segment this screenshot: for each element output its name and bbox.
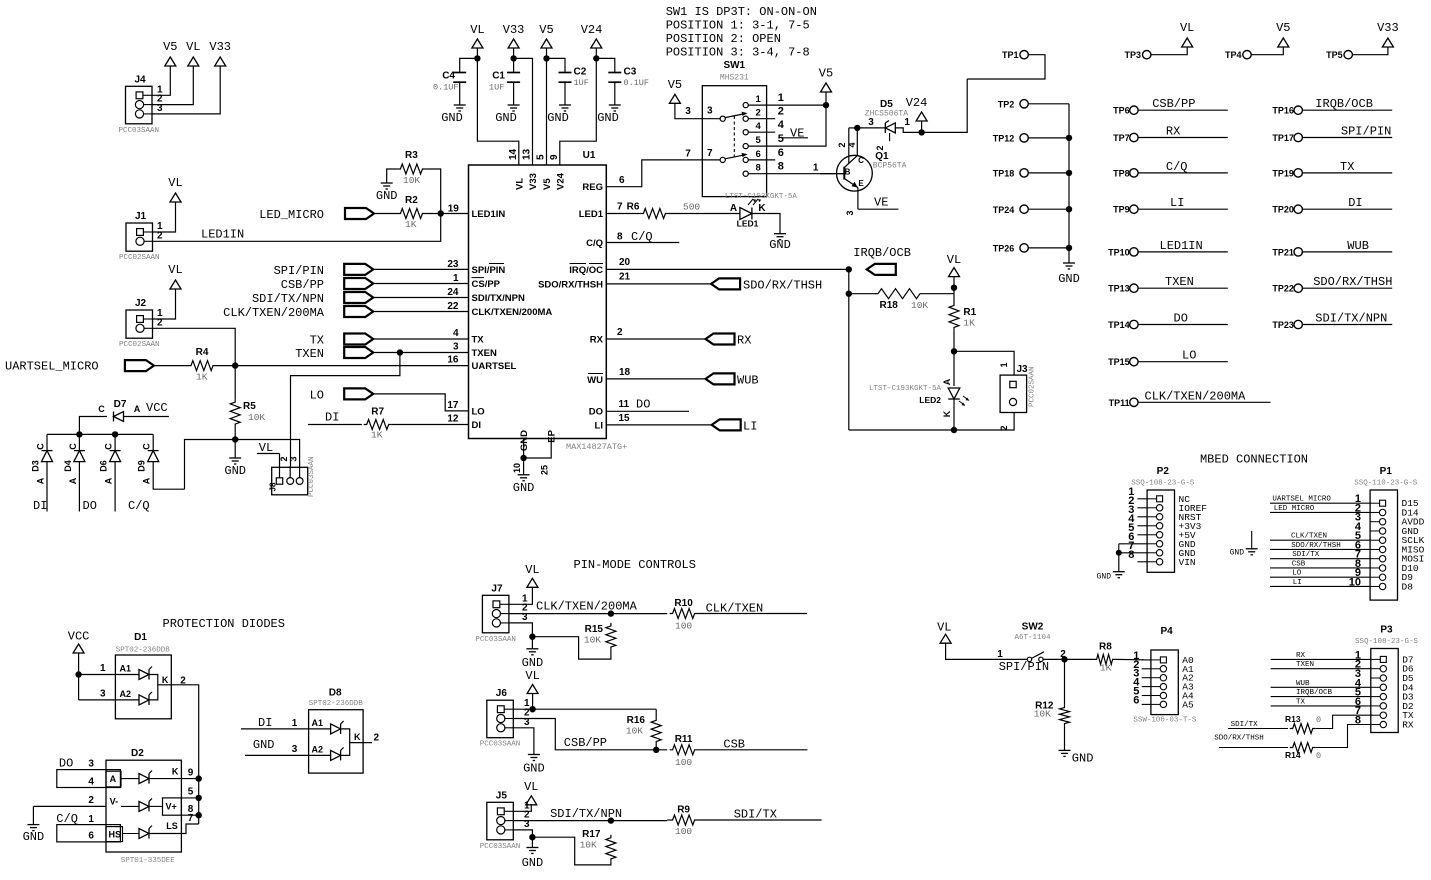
diode D4 — [78, 434, 80, 450]
wire SW1 pin8 to Q1 base — [748, 173, 843, 175]
svg-text:CSB/PP: CSB/PP — [564, 736, 607, 750]
svg-text:P1: P1 — [1380, 466, 1393, 477]
net tag SPI/PIN — [344, 264, 373, 275]
wire P4 pin1 stub — [1142, 659, 1151, 661]
svg-text:TXEN: TXEN — [295, 347, 324, 361]
svg-text:R13: R13 — [1285, 714, 1301, 724]
wire P4 pin6 stub — [1142, 703, 1151, 705]
wire R2 to pin 19 of U1 — [425, 213, 468, 215]
svg-text:J5: J5 — [496, 790, 508, 801]
svg-text:VL: VL — [168, 176, 182, 190]
svg-text:LO: LO — [472, 406, 485, 417]
junction V24 node — [918, 129, 924, 135]
diode D1a — [139, 670, 149, 680]
connector J4 — [126, 86, 153, 124]
wire D1 K junction — [149, 675, 158, 700]
ground at R5 — [234, 440, 236, 459]
wire TP5 to V33 — [1353, 47, 1388, 55]
svg-text:VL: VL — [470, 23, 484, 37]
svg-text:PROTECTION DIODES: PROTECTION DIODES — [163, 617, 285, 631]
svg-text:0.1UF: 0.1UF — [624, 78, 650, 88]
svg-text:V5: V5 — [163, 40, 177, 54]
wire J5 pin1 to VL — [513, 805, 531, 812]
svg-text:C/Q: C/Q — [586, 238, 603, 249]
svg-text:RX: RX — [737, 333, 751, 347]
wire TP24 to gnd bus — [1028, 208, 1069, 210]
svg-text:6: 6 — [88, 831, 94, 842]
svg-text:D6: D6 — [99, 460, 109, 472]
wire TX to U1 pin 4 — [373, 338, 468, 340]
svg-text:D8: D8 — [329, 688, 342, 699]
svg-text:VE: VE — [874, 196, 888, 210]
junction U1 ground node — [520, 455, 526, 461]
svg-text:POSITION 2: OPEN: POSITION 2: OPEN — [666, 32, 781, 46]
wire TP1 to V24 riser — [967, 55, 1045, 79]
wire P3 TXEN — [1271, 668, 1371, 670]
svg-text:A1: A1 — [312, 718, 324, 728]
wire CSB/PP to U1 pin 1 — [373, 283, 468, 285]
svg-text:V5: V5 — [542, 178, 553, 190]
svg-text:PIN-MODE CONTROLS: PIN-MODE CONTROLS — [574, 558, 696, 572]
power V5 arrow above node — [821, 83, 832, 92]
svg-text:UARTSEL_MICRO: UARTSEL_MICRO — [5, 360, 99, 374]
svg-text:LO: LO — [310, 388, 324, 402]
svg-text:C/Q: C/Q — [56, 812, 78, 826]
svg-text:LED1: LED1 — [579, 209, 604, 220]
diode D3 — [46, 434, 48, 450]
svg-text:GND: GND — [547, 111, 569, 125]
wire LED2 node to J3 pin2 — [954, 413, 1014, 431]
svg-text:SDO/RX/THSH: SDO/RX/THSH — [743, 278, 822, 292]
svg-text:VCC: VCC — [146, 401, 168, 415]
svg-text:V24: V24 — [581, 23, 603, 37]
power V33 arrow rail — [508, 39, 519, 48]
wire J1 pin1 to VL — [153, 202, 176, 232]
svg-text:CLK/TXEN: CLK/TXEN — [1291, 533, 1327, 541]
svg-text:TP6: TP6 — [1113, 106, 1130, 116]
pin box V+ of D2 — [163, 798, 182, 815]
svg-text:GND: GND — [376, 189, 398, 203]
svg-text:6: 6 — [778, 147, 784, 159]
svg-text:2: 2 — [756, 108, 761, 119]
wire R1 to LED2 node — [953, 330, 955, 351]
svg-text:0: 0 — [1316, 715, 1321, 725]
junction R18 left node — [846, 291, 852, 297]
svg-text:13: 13 — [522, 148, 533, 160]
svg-text:A5: A5 — [1182, 699, 1194, 710]
svg-text:R14: R14 — [1285, 750, 1301, 760]
wire U1 EP pin to ground node — [524, 439, 552, 459]
wire TP3 to VL — [1151, 47, 1187, 55]
wire V5 to SW1 pin3 — [675, 103, 703, 118]
svg-text:GND: GND — [513, 481, 535, 495]
svg-text:LO: LO — [1182, 349, 1196, 363]
svg-text:GND: GND — [495, 111, 517, 125]
svg-text:GND: GND — [23, 830, 45, 844]
svg-text:2: 2 — [157, 317, 163, 328]
svg-text:DO: DO — [1174, 312, 1188, 326]
svg-text:SSQ-108-23-G-S: SSQ-108-23-G-S — [1355, 638, 1419, 646]
svg-text:V24: V24 — [906, 96, 928, 110]
ground at R3 — [381, 182, 393, 184]
svg-text:VL: VL — [1180, 21, 1194, 35]
wire TP11 stub CLK/TXEN/200MA — [1138, 401, 1270, 403]
svg-text:7: 7 — [707, 148, 713, 159]
wire P4 pin4 stub — [1142, 686, 1151, 688]
svg-text:VL: VL — [168, 263, 182, 277]
capacitor C3 — [596, 58, 615, 65]
svg-text:C: C — [858, 156, 864, 165]
svg-text:SDI/TX/NPN: SDI/TX/NPN — [1315, 312, 1387, 326]
wire LED1 cathode to ground — [752, 214, 780, 234]
svg-text:RX: RX — [1166, 125, 1180, 139]
svg-text:CSB/PP: CSB/PP — [281, 278, 324, 292]
svg-text:2: 2 — [88, 795, 94, 806]
svg-text:2: 2 — [279, 456, 289, 461]
wire J2 pin2 down to UARTSEL node — [153, 328, 236, 365]
svg-text:GND: GND — [1058, 272, 1080, 286]
svg-text:WUB: WUB — [1347, 239, 1369, 253]
svg-text:C2: C2 — [574, 67, 587, 78]
wire C/Q stub from U1 pin 8 — [606, 242, 679, 244]
svg-text:LED1IN: LED1IN — [1160, 239, 1203, 253]
wire D7 anode to VCC — [124, 416, 169, 418]
resistor R4 — [188, 361, 216, 371]
junction VL R1 node — [951, 285, 957, 291]
power VL arrow at SW2 — [940, 634, 951, 643]
wire IRQB vertical to LED2 node — [849, 429, 954, 431]
svg-text:10K: 10K — [1034, 709, 1051, 720]
svg-text:4: 4 — [88, 777, 94, 788]
svg-text:P2: P2 — [1157, 466, 1170, 477]
svg-text:V5: V5 — [539, 23, 553, 37]
svg-text:7: 7 — [685, 149, 691, 160]
svg-text:C/Q: C/Q — [128, 499, 150, 513]
svg-text:C: C — [104, 443, 114, 450]
connector J6 — [487, 700, 514, 738]
svg-text:3: 3 — [289, 456, 299, 461]
svg-text:2: 2 — [837, 142, 847, 147]
wire SW2 to R8 node — [1043, 658, 1094, 660]
wire R6 to LED1 anode — [668, 213, 740, 215]
svg-text:SDI/TX/NPN: SDI/TX/NPN — [252, 292, 324, 306]
resistor R7 — [364, 420, 392, 430]
resistor R17 — [532, 837, 611, 865]
wire P3 RX — [1271, 658, 1371, 660]
wire SPI/PIN to U1 pin 23 — [373, 268, 468, 270]
svg-text:TP3: TP3 — [1124, 50, 1141, 60]
svg-text:POSITION 1: 3-1, 7-5: POSITION 1: 3-1, 7-5 — [666, 19, 810, 33]
svg-text:TP24: TP24 — [993, 205, 1015, 215]
svg-text:22: 22 — [447, 301, 459, 312]
wire P3 WUB — [1271, 686, 1371, 688]
svg-text:10K: 10K — [580, 840, 597, 851]
wire V33 rail to pin 13 — [514, 58, 533, 165]
junction R17 top — [608, 817, 614, 823]
wire diode bus to R5 node — [185, 440, 236, 490]
svg-text:SW1 IS DP3T: ON-ON-ON: SW1 IS DP3T: ON-ON-ON — [666, 5, 817, 19]
junction VCC node at D1 — [75, 671, 81, 677]
wire D1 pin2 to D2 rail — [171, 685, 198, 824]
wire P4 pin2 stub — [1142, 668, 1151, 670]
power V24 arrow rail — [591, 39, 602, 48]
svg-text:8: 8 — [756, 163, 761, 174]
wire V24 node to TP1 riser — [922, 79, 968, 132]
svg-text:MHS231: MHS231 — [720, 74, 749, 83]
svg-text:11: 11 — [619, 399, 630, 410]
svg-text:24: 24 — [447, 287, 459, 298]
svg-text:K: K — [172, 767, 179, 777]
svg-text:TP20: TP20 — [1272, 205, 1294, 215]
svg-text:B: B — [845, 168, 851, 177]
wire SW1 pin5 to V5 node — [748, 105, 826, 146]
svg-text:PCC03SAAN: PCC03SAAN — [118, 127, 159, 135]
wire Q1 collector horiz — [849, 127, 858, 129]
svg-text:3: 3 — [707, 106, 713, 117]
wire D1 pin1 — [79, 674, 139, 676]
wire TP10 stub LED1IN — [1138, 251, 1228, 253]
svg-text:DI: DI — [325, 411, 339, 425]
resistor R11 — [670, 745, 698, 755]
diode D2b — [121, 805, 139, 807]
svg-text:A: A — [104, 477, 114, 484]
svg-text:TP11: TP11 — [1109, 398, 1130, 408]
wire LED1IN net from J1 pin2 — [153, 214, 441, 242]
svg-text:GND: GND — [1072, 751, 1094, 765]
wire V24 rail to pin 9 — [560, 58, 597, 165]
connector P2 — [1147, 490, 1174, 572]
wire node to J3 pin1 — [954, 351, 1014, 375]
resistor R3 — [397, 164, 425, 174]
ground at C1 — [508, 104, 520, 106]
svg-text:SPI/PIN: SPI/PIN — [274, 264, 324, 278]
svg-text:1UF: 1UF — [489, 83, 504, 93]
svg-text:10: 10 — [512, 463, 522, 473]
svg-text:TP17: TP17 — [1272, 133, 1294, 143]
svg-text:A2: A2 — [312, 745, 324, 755]
svg-text:D9: D9 — [137, 460, 147, 472]
pin box A of D2 — [106, 771, 121, 787]
svg-text:CLK/TXEN: CLK/TXEN — [706, 601, 764, 615]
svg-text:12: 12 — [447, 414, 459, 425]
svg-text:DI: DI — [472, 420, 482, 431]
svg-text:7: 7 — [617, 202, 623, 213]
junction diode bus at D4 — [76, 431, 82, 437]
svg-text:VL: VL — [514, 178, 525, 190]
svg-text:SDI/TX: SDI/TX — [1292, 551, 1320, 559]
svg-text:1K: 1K — [1100, 663, 1112, 674]
svg-text:21: 21 — [619, 272, 631, 283]
svg-text:SW1: SW1 — [723, 60, 745, 71]
wire P3 TX — [1271, 705, 1371, 707]
junction node LED1IN — [438, 210, 444, 216]
resistor R12 — [1064, 659, 1066, 704]
svg-text:GND: GND — [253, 738, 275, 752]
wire R14 to P3 pin8 — [1316, 725, 1373, 748]
svg-text:HS: HS — [109, 830, 122, 840]
resistor R5 — [234, 366, 236, 400]
svg-text:3: 3 — [522, 612, 528, 623]
svg-text:RX: RX — [590, 335, 604, 346]
svg-text:SDO/RX/THSH: SDO/RX/THSH — [1291, 542, 1341, 550]
svg-text:R9: R9 — [677, 805, 690, 816]
svg-text:J3: J3 — [1016, 364, 1028, 375]
svg-text:R7: R7 — [371, 407, 384, 418]
diode D2c — [123, 833, 140, 835]
svg-text:A: A — [730, 203, 737, 214]
svg-text:WUB: WUB — [737, 373, 759, 387]
svg-text:R3: R3 — [405, 150, 418, 161]
svg-text:P3: P3 — [1380, 625, 1393, 636]
svg-text:LED1IN: LED1IN — [201, 228, 244, 242]
svg-text:1: 1 — [778, 92, 784, 104]
svg-text:3: 3 — [453, 342, 459, 353]
svg-text:R8: R8 — [1099, 641, 1112, 652]
svg-text:Q1: Q1 — [875, 151, 889, 162]
wire TP16 stub IRQB/OCB — [1303, 109, 1393, 111]
ground at P2 — [1118, 553, 1120, 572]
wire J5 pin3 to gnd node — [513, 830, 532, 837]
svg-text:DO: DO — [59, 757, 73, 771]
svg-text:TP10: TP10 — [1108, 247, 1130, 257]
net stub DI at D8 — [241, 728, 331, 730]
svg-text:10K: 10K — [584, 635, 601, 646]
svg-text:R11: R11 — [675, 734, 693, 745]
wire DI stub — [308, 424, 362, 426]
svg-text:LO: LO — [1292, 570, 1302, 578]
power V5 arrow — [165, 57, 176, 66]
svg-text:GND: GND — [1097, 573, 1112, 582]
svg-text:LI: LI — [595, 420, 603, 431]
svg-text:SSQ-108-23-G-S: SSQ-108-23-G-S — [1131, 480, 1195, 488]
wire SW1 pin1 to V5 node — [748, 104, 826, 106]
svg-text:9: 9 — [188, 768, 194, 779]
svg-text:0.1UF: 0.1UF — [433, 83, 459, 93]
junction J7 gnd node — [529, 634, 535, 640]
wire CLK/TXEN/200MA from J7 pin2 — [509, 613, 667, 615]
diode D7 — [79, 417, 107, 435]
wire P2 pin8 stub — [1137, 561, 1147, 563]
wire SW1 pin6 stub — [748, 159, 775, 161]
svg-text:UARTSEL MICRO: UARTSEL MICRO — [1272, 496, 1331, 504]
svg-text:R5: R5 — [243, 401, 256, 412]
svg-text:V33: V33 — [528, 173, 539, 190]
svg-text:VL: VL — [186, 40, 200, 54]
junction D2 pin5 — [196, 795, 202, 801]
svg-text:5: 5 — [778, 133, 784, 145]
wire U1 LED1 pin to R6 — [606, 213, 640, 215]
wire J6 pin3 to gnd — [513, 728, 534, 755]
wire diode bus — [47, 433, 153, 435]
power V5 arrow rail — [541, 39, 552, 48]
resistor R10 — [670, 609, 698, 619]
svg-text:TP9: TP9 — [1113, 205, 1130, 215]
svg-text:PCC03SAAN: PCC03SAAN — [480, 741, 521, 749]
power VL arrow at J1 — [170, 193, 181, 202]
ground at J5 — [531, 837, 533, 847]
svg-text:3: 3 — [845, 210, 855, 215]
diode D9 — [152, 434, 154, 450]
wire CLK/TXEN output — [698, 613, 807, 615]
svg-text:J6: J6 — [496, 688, 508, 699]
svg-text:TX: TX — [1296, 698, 1306, 706]
connector P3 — [1371, 649, 1398, 733]
svg-text:A: A — [142, 477, 152, 484]
junction D2 pin8 — [196, 812, 202, 818]
wire UARTSEL_MICRO to R4 — [154, 365, 188, 367]
svg-text:R17: R17 — [582, 829, 601, 840]
power VL arrow at R1 — [949, 268, 960, 277]
wire P1 UARTSEL MICRO — [1270, 502, 1370, 504]
power VL arrow at J6 — [527, 685, 538, 694]
connector J3 — [1000, 375, 1027, 412]
svg-text:1: 1 — [453, 273, 459, 284]
svg-text:DI: DI — [1348, 196, 1362, 210]
svg-text:V33: V33 — [503, 23, 525, 37]
junction SW2 node — [1061, 656, 1067, 662]
wire J4 pin1 to V5 — [153, 66, 171, 95]
wire P2 pin1 stub — [1137, 498, 1147, 500]
ground at C2 — [559, 104, 571, 106]
wire R9 left — [667, 819, 669, 821]
wire D2 pin8 — [181, 814, 198, 816]
svg-text:SDO/RX/THSH: SDO/RX/THSH — [1214, 735, 1264, 743]
wire Q1 emitter to VE stub — [858, 208, 899, 210]
resistor R15 — [532, 637, 611, 659]
net tag WUB — [606, 378, 705, 380]
svg-text:TP12: TP12 — [993, 134, 1015, 144]
junction R16 bottom — [653, 747, 659, 753]
net tag LI — [606, 424, 711, 426]
svg-text:TP26: TP26 — [993, 244, 1015, 254]
svg-text:R4: R4 — [196, 347, 209, 358]
svg-text:PCC03SAAN: PCC03SAAN — [475, 636, 516, 644]
svg-text:TX: TX — [310, 334, 324, 348]
svg-text:C4: C4 — [442, 71, 455, 82]
svg-text:R18: R18 — [880, 300, 899, 311]
resistor R16 — [655, 709, 657, 717]
svg-text:TP5: TP5 — [1326, 50, 1343, 60]
wire TP14 stub DO — [1138, 324, 1228, 326]
svg-text:2: 2 — [999, 425, 1009, 430]
svg-text:LED2: LED2 — [919, 395, 941, 405]
svg-text:C1: C1 — [492, 71, 505, 82]
svg-text:MAX14827ATG+: MAX14827ATG+ — [566, 442, 627, 452]
wire P4 pin5 stub — [1142, 695, 1151, 697]
wire J4 pin2 to VL — [153, 66, 194, 105]
net tag SDI/TX/NPN — [344, 292, 373, 303]
svg-text:C3: C3 — [624, 67, 637, 78]
svg-text:TP13: TP13 — [1108, 284, 1130, 294]
svg-text:SPT01-335DEE: SPT01-335DEE — [121, 857, 176, 865]
svg-text:CSB: CSB — [723, 738, 745, 752]
svg-text:TP22: TP22 — [1272, 284, 1294, 294]
wire P3 IRQB/OCB — [1271, 696, 1371, 698]
svg-text:A: A — [134, 404, 141, 414]
svg-text:REG: REG — [582, 182, 603, 193]
ground at R12 — [1064, 727, 1066, 751]
net tag CLK/TXEN/200MA — [344, 306, 373, 317]
resistor R9 — [670, 815, 698, 825]
wire P1 LI — [1270, 585, 1370, 587]
svg-text:19: 19 — [448, 204, 460, 215]
svg-text:SPI/PIN: SPI/PIN — [999, 660, 1049, 674]
wire J2 pin1 to VL — [153, 289, 176, 319]
junction D2 pin9 — [196, 775, 202, 781]
svg-text:GND: GND — [597, 111, 619, 125]
net stub V- at D2 — [33, 805, 106, 807]
wire LED_MICRO to R2 — [374, 213, 397, 215]
